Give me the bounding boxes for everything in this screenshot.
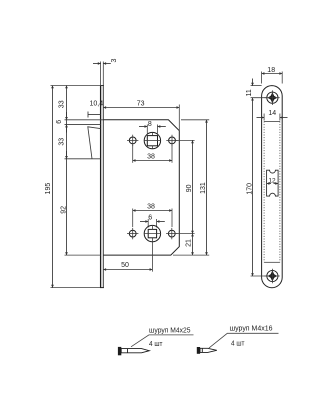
dim 50 extension line from lower spindle [151,242,153,272]
svg-text:50: 50 [121,262,129,269]
lower left screw hole [129,230,136,237]
dim chain 33/6/33/92 line [66,86,68,256]
svg-text:38: 38 [147,154,155,161]
dim 8 extension lines [146,125,148,134]
svg-text:11: 11 [246,89,253,96]
dim 8 outside arrows [139,126,147,128]
dim 90/21 extension line upper [176,139,195,141]
upper spindle crosshair [145,140,161,142]
case outline with chamfered right corners [103,120,179,255]
upper spindle hole [144,132,160,148]
dim 6 lower extension lines [147,219,149,228]
dim 131 line [206,120,208,255]
plate bottom extension line [51,287,101,289]
svg-text:38: 38 [147,203,155,210]
dim 170 bottom extension line [251,275,267,277]
dim 10,4 line [88,114,101,116]
dim 170 line [252,98,254,276]
svg-text:6: 6 [56,120,63,124]
screw M4x16 head [197,347,200,354]
lower right screw hole [168,230,175,237]
upper left screw hole [129,137,136,144]
dim 6 outside arrows [140,221,148,223]
svg-text:21: 21 [186,239,193,247]
dim 11/170 top extension line [251,85,262,87]
inner recess right dotted line [279,122,281,263]
upper spindle square [147,136,157,146]
svg-text:3: 3 [111,58,118,62]
screw M4x25 head [118,347,121,355]
faceplate side view right edge [102,86,104,288]
svg-text:195: 195 [45,183,52,195]
upper right screw hole [169,137,176,144]
screw M4x16 body [200,348,217,352]
svg-text:33: 33 [58,100,65,108]
chain arrows at latch top (outside pair) [66,125,68,133]
svg-text:90: 90 [186,184,193,192]
screw M4x25 leader [131,335,194,347]
dim 10,4 ticks [87,112,89,118]
chain arrows at case top [66,112,68,120]
lower spindle square [148,229,156,237]
dim 38 lower line [133,210,172,212]
dim 131 extension top [181,119,209,121]
dim 12 arrows [267,183,271,185]
dim 3 extension lines [100,62,102,86]
svg-text:10,4: 10,4 [89,101,103,108]
lower spindle hole [144,225,160,241]
dim 3 line with outside arrows [93,63,101,65]
svg-text:170: 170 [246,183,253,195]
chain arrow at latch bottom [66,151,68,159]
faceplate stadium outline [262,86,283,288]
dim 131 extension bottom [173,254,209,256]
dim 73 line [103,107,179,109]
svg-text:4 шт: 4 шт [231,340,245,347]
case bottom extension line to chain [65,254,101,256]
dim 21 line [192,234,194,256]
svg-text:шуруп М4х25: шуруп М4х25 [149,327,191,334]
dim 14 extension lines [263,114,265,121]
svg-text:14: 14 [268,110,276,117]
svg-text:12: 12 [268,177,276,184]
faceplate bottom edge [100,287,104,289]
dim 11 outside arrows [252,79,254,86]
lower spindle crosshair [144,233,161,235]
inner recess bottom line [264,261,280,263]
latch bolt bevel profile [88,127,101,159]
dim 14 outside arrows [257,117,265,119]
plate top extension line [51,85,104,87]
case top extension line to chain [65,119,104,121]
latch cutout spool shape [267,170,279,196]
inner recess left dotted line [263,122,265,263]
bottom screw head [264,269,279,284]
screw M4x25 body [121,349,149,353]
dim 18 extension lines [261,72,263,84]
dim 38 upper extension lines [132,145,134,163]
svg-text:6: 6 [148,215,152,222]
dim 11/170 screw1 extension line [251,97,267,99]
dim 50 line [103,269,152,271]
faceplate side view left edge [100,86,102,288]
latch bottom line [65,158,101,160]
faceplate top edge [100,85,104,87]
dim 18 line [262,73,283,75]
inner recess top line [264,121,280,123]
dim chain 195 line [52,86,54,288]
dim 38 upper line [133,160,172,162]
dim 90 line [192,140,194,233]
screw M4x16 leader [209,333,279,348]
latch top line [65,124,101,126]
svg-text:73: 73 [137,100,145,107]
screw M4x25 thread divider [127,349,129,353]
svg-text:33: 33 [58,138,65,146]
svg-text:8: 8 [148,121,152,128]
svg-text:шуруп М4х16: шуруп М4х16 [230,326,273,333]
screw M4x16 thread divider [201,348,203,352]
svg-text:92: 92 [60,206,67,214]
dim 90/21 extension line mid [176,233,195,235]
svg-text:4 шт: 4 шт [149,341,163,348]
dim 38 lower extension lines [132,209,134,228]
svg-text:18: 18 [267,67,275,74]
top screw head [264,90,279,105]
svg-text:131: 131 [200,182,207,194]
dim 73 right extension line [178,105,180,131]
